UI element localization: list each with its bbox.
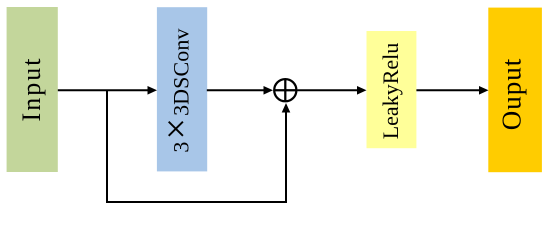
arrowhead into adder (264, 86, 274, 95)
skip wire down from junction (107, 90, 286, 202)
arrowhead into Ouput (479, 86, 489, 95)
wire Input to Conv (58, 89, 149, 91)
arrowhead up into adder (282, 103, 291, 113)
block Input (7, 7, 58, 172)
wire LeakyRelu to Ouput (416, 89, 480, 91)
arrowhead into Conv (148, 86, 158, 95)
svg-text:LeakyRelu: LeakyRelu (378, 43, 403, 140)
block LeakyRelu (367, 31, 417, 148)
block Ouput (488, 8, 542, 173)
wire Conv to adder (207, 89, 265, 91)
svg-text:Ouput: Ouput (497, 58, 527, 131)
arrowhead into LeakyRelu (357, 86, 367, 95)
wire adder to LeakyRelu (298, 89, 359, 91)
adder circle-plus (274, 79, 296, 101)
svg-text:Input: Input (17, 57, 46, 122)
block 3x3DSConv (157, 7, 207, 171)
